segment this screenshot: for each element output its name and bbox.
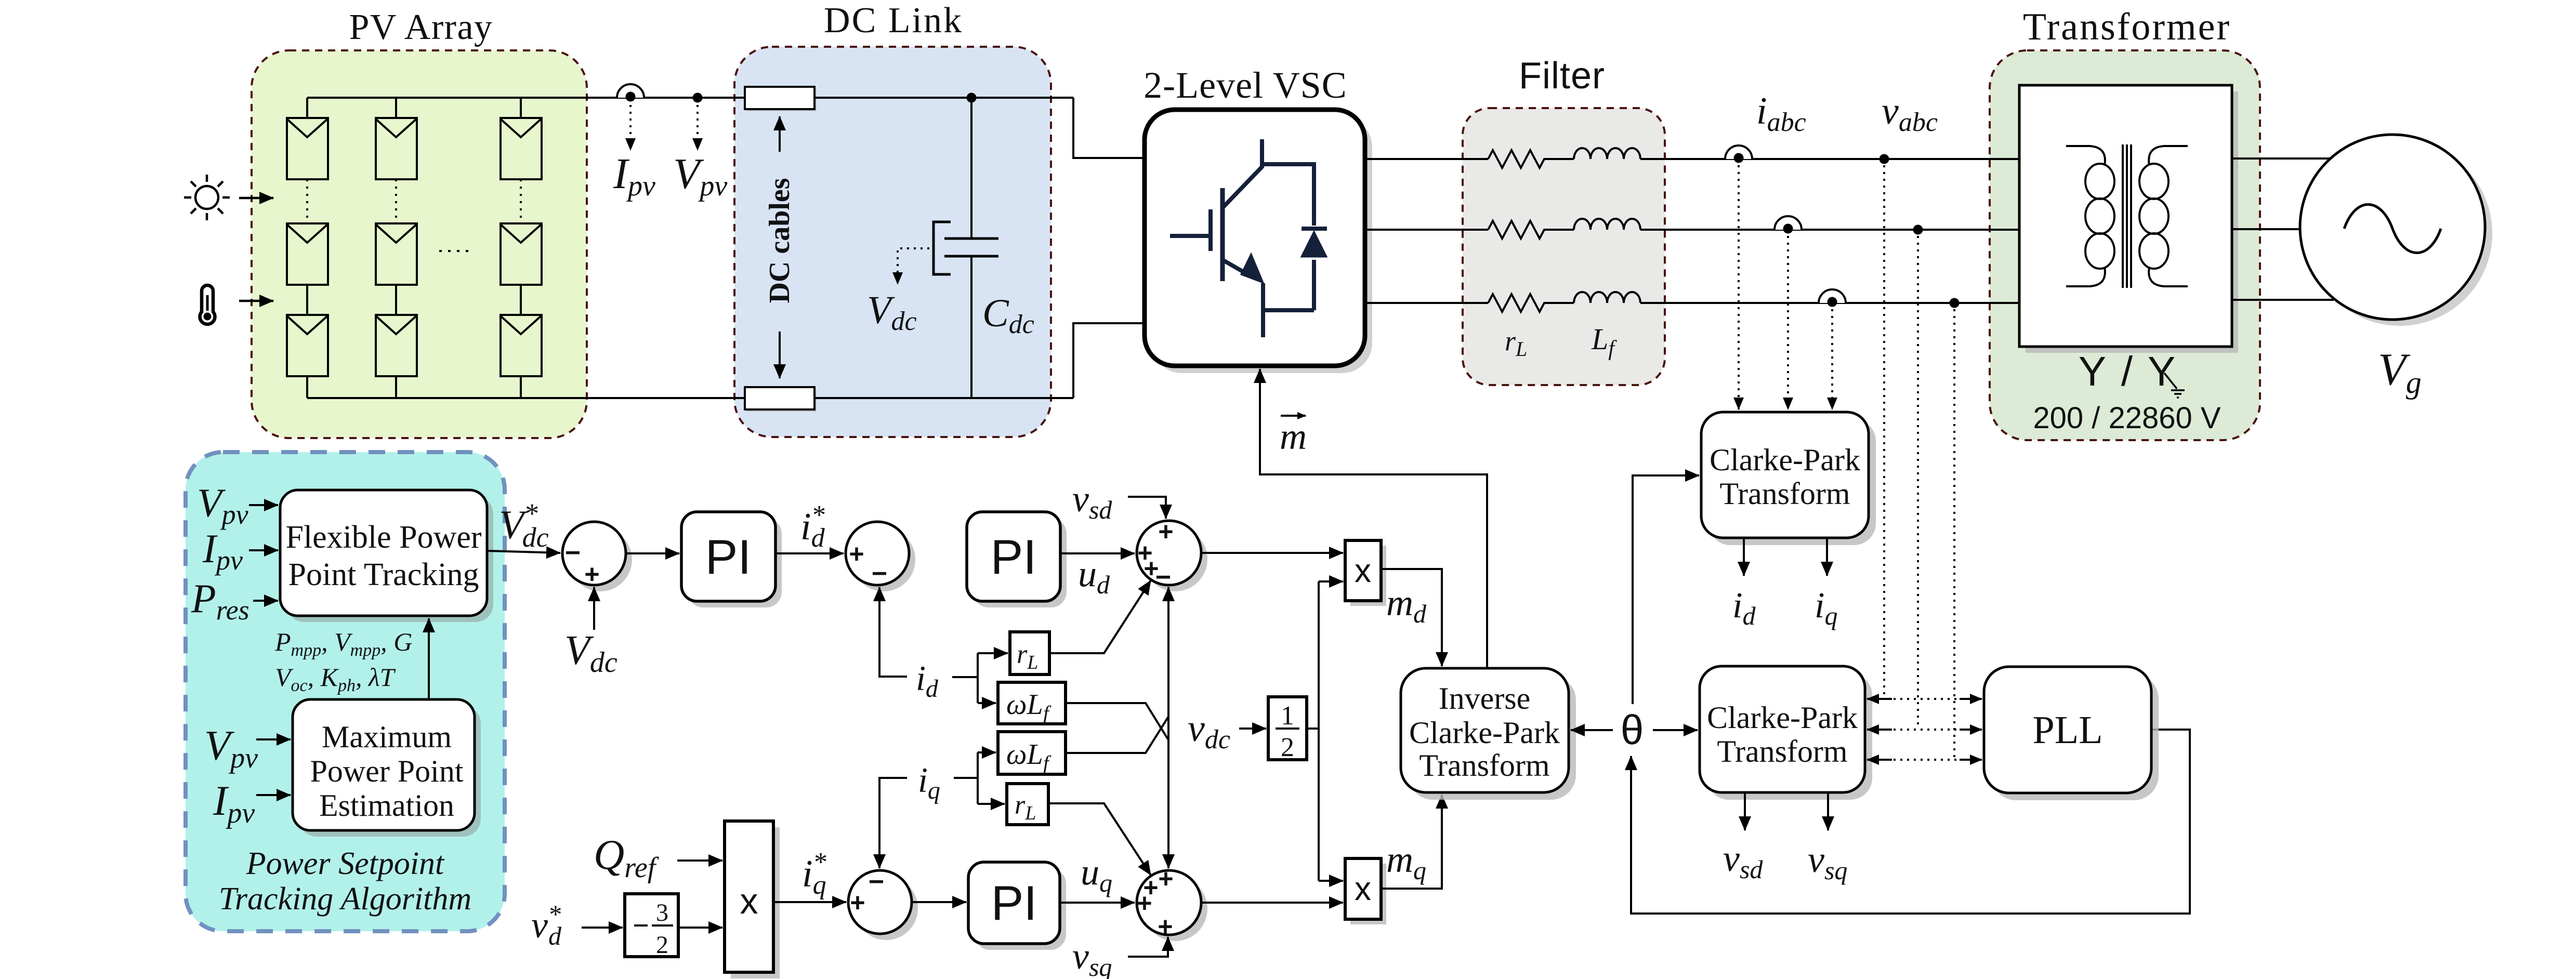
svg-text:+: + xyxy=(1158,517,1173,546)
svg-text:ud: ud xyxy=(1078,553,1110,599)
svg-text:−: − xyxy=(565,538,581,568)
svg-text:m: m xyxy=(1280,416,1307,457)
svg-text:Power Setpoint: Power Setpoint xyxy=(246,846,445,881)
svg-text:−: − xyxy=(869,867,884,897)
svg-text:mq: mq xyxy=(1386,839,1426,885)
svg-text:md: md xyxy=(1386,582,1427,628)
svg-text:−: − xyxy=(872,559,887,589)
svg-text:Y / Y: Y / Y xyxy=(2079,348,2178,394)
svg-text:vdc: vdc xyxy=(1188,707,1230,755)
svg-text:Transform: Transform xyxy=(1419,748,1549,783)
svg-text:2: 2 xyxy=(1281,733,1294,762)
svg-text:vsq: vsq xyxy=(1808,839,1847,885)
svg-text:Clarke-Park: Clarke-Park xyxy=(1707,700,1858,735)
svg-text:Vg: Vg xyxy=(2378,345,2422,400)
svg-text:v*d: v*d xyxy=(531,899,562,950)
svg-text:x: x xyxy=(1355,552,1371,589)
svg-text:iq: iq xyxy=(1815,586,1837,630)
svg-text:+: + xyxy=(849,539,864,568)
svg-text:Qref: Qref xyxy=(594,831,660,884)
svg-text:i*d: i*d xyxy=(800,500,825,553)
svg-text:Vdc: Vdc xyxy=(564,628,617,679)
svg-text:Transformer: Transformer xyxy=(2023,6,2231,48)
svg-text:Flexible Power: Flexible Power xyxy=(285,520,481,555)
svg-text:PI: PI xyxy=(991,530,1037,584)
svg-text:vsd: vsd xyxy=(1072,478,1112,524)
svg-text:+: + xyxy=(1158,864,1173,893)
svg-text:vsq: vsq xyxy=(1072,935,1112,979)
svg-text:Filter: Filter xyxy=(1519,55,1605,97)
svg-text:id: id xyxy=(916,658,939,703)
svg-text:V*dc: V*dc xyxy=(499,498,549,553)
svg-text:2-Level VSC: 2-Level VSC xyxy=(1144,64,1347,106)
svg-text:Clarke-Park: Clarke-Park xyxy=(1710,443,1860,477)
svg-text:+: + xyxy=(1137,889,1152,918)
svg-text:Estimation: Estimation xyxy=(319,788,454,823)
svg-text:PLL: PLL xyxy=(2032,708,2102,752)
svg-text:DC Link: DC Link xyxy=(824,1,963,41)
svg-text:Clarke-Park: Clarke-Park xyxy=(1409,716,1560,750)
svg-text:Vpv: Vpv xyxy=(673,150,727,202)
svg-text:200 / 22860 V: 200 / 22860 V xyxy=(2033,401,2221,435)
svg-text:PV Array: PV Array xyxy=(349,7,493,47)
svg-text:PI: PI xyxy=(705,530,752,584)
svg-text:1: 1 xyxy=(1281,701,1294,731)
svg-text:vsd: vsd xyxy=(1723,838,1763,884)
svg-text:Point Tracking: Point Tracking xyxy=(288,557,479,592)
svg-text:x: x xyxy=(1355,870,1371,907)
svg-text:uq: uq xyxy=(1081,851,1112,897)
svg-text:+: + xyxy=(584,560,599,589)
svg-text:θ: θ xyxy=(1621,707,1644,753)
svg-text:Power Point: Power Point xyxy=(310,754,463,788)
svg-text:2: 2 xyxy=(656,931,668,959)
svg-text:+: + xyxy=(1158,912,1173,941)
svg-text:DC cables: DC cables xyxy=(764,178,796,303)
svg-text:i*q: i*q xyxy=(802,848,826,900)
svg-text:x: x xyxy=(740,881,758,921)
svg-text:+: + xyxy=(850,888,865,917)
svg-text:Tracking Algorithm: Tracking Algorithm xyxy=(219,881,471,917)
svg-text:Ipv: Ipv xyxy=(613,150,655,202)
svg-text:Inverse: Inverse xyxy=(1439,681,1531,716)
svg-text:3: 3 xyxy=(656,899,668,927)
svg-text:Transform: Transform xyxy=(1719,477,1850,511)
svg-text:PI: PI xyxy=(991,876,1037,930)
svg-text:iabc: iabc xyxy=(1756,90,1806,137)
svg-text:Maximum: Maximum xyxy=(322,720,452,754)
svg-text:id: id xyxy=(1732,586,1756,630)
svg-text:vabc: vabc xyxy=(1882,90,1938,137)
svg-text:Transform: Transform xyxy=(1717,734,1847,769)
svg-text:iq: iq xyxy=(918,760,940,804)
